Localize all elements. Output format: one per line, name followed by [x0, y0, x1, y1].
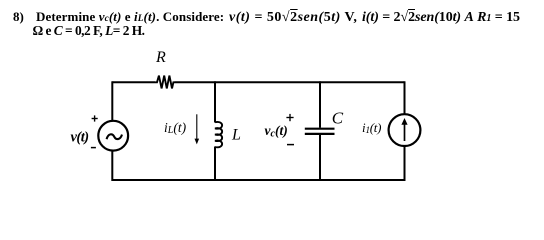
sine symbol [107, 134, 122, 139]
wire capacitor lower [319, 135, 321, 181]
polarity + capacitor [286, 114, 293, 121]
voltage source V1 [98, 121, 128, 151]
wire middle lower [214, 147, 216, 182]
iL current arrow [195, 114, 200, 144]
wire middle upper [214, 81, 216, 122]
capacitor C [305, 128, 335, 130]
wire left lower [111, 151, 113, 181]
problem statement line 1 [13, 9, 24, 25]
wire top-left segment [112, 81, 155, 83]
wire left upper [111, 81, 113, 121]
wire top-right segment [175, 81, 405, 83]
wire right lower [404, 146, 406, 181]
polarity - voltage source [91, 147, 96, 149]
svg-text:L: L [231, 127, 241, 144]
svg-text:vc(t): vc(t) [265, 123, 288, 140]
svg-text:R: R [155, 49, 166, 66]
problem statement line 2 [33, 23, 145, 39]
svg-text:C: C [332, 108, 344, 127]
polarity + voltage source [92, 115, 98, 121]
polarity - capacitor [287, 144, 294, 146]
resistor R [155, 76, 175, 89]
svg-text:i1(t): i1(t) [362, 120, 381, 136]
svg-text:iL(t): iL(t) [164, 120, 187, 136]
wire right upper [404, 81, 406, 114]
wire bottom [112, 179, 404, 181]
svg-text:v(t): v(t) [71, 130, 89, 146]
inductor L [215, 122, 222, 147]
wire capacitor upper [319, 81, 321, 127]
current source arrow [401, 118, 407, 141]
current source I1 [389, 114, 421, 146]
